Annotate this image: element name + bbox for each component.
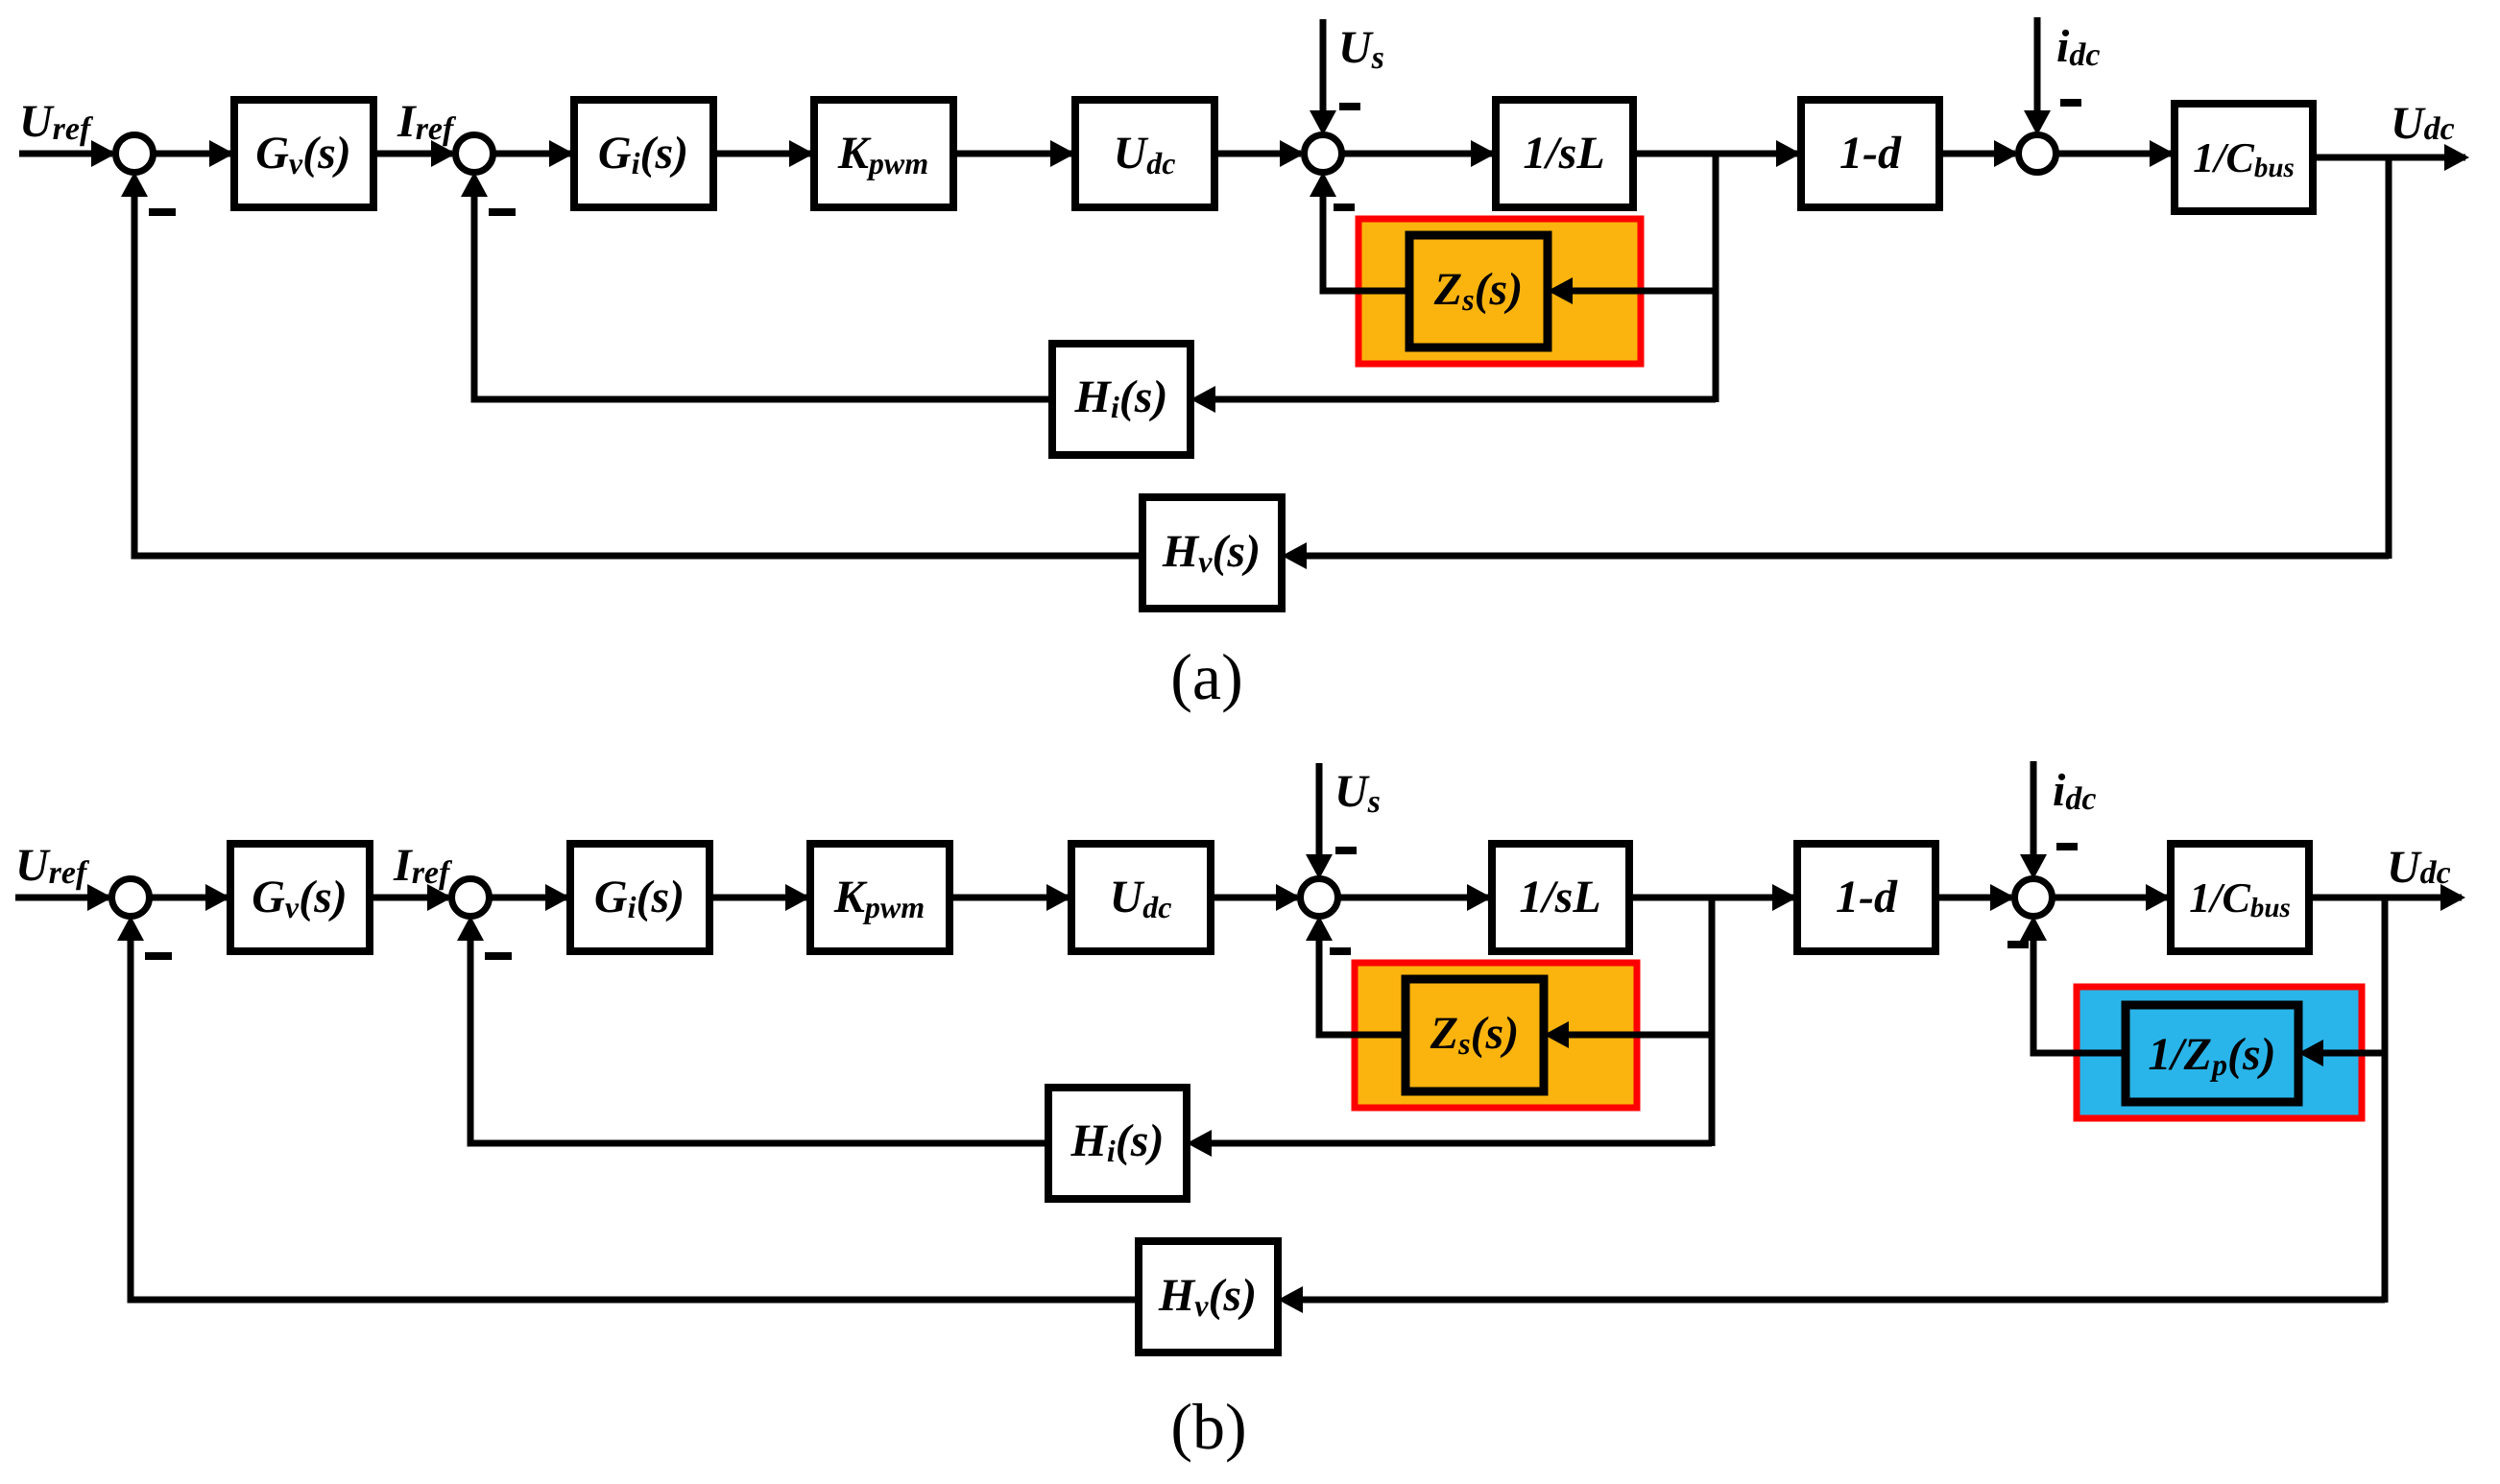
svg-text:Hv(s): Hv(s)	[1158, 1270, 1257, 1323]
svg-text:(a): (a)	[1170, 640, 1242, 713]
wire Udc -> S3 (b)	[1211, 895, 1297, 901]
highlight panel Zs(s) (b)	[1355, 963, 1637, 1108]
block Hv(s) (b)	[1139, 1241, 1278, 1352]
wire Hv(s) output -> S1 (b)	[131, 935, 1139, 1300]
minus sign at S1 (a)	[149, 208, 176, 216]
svg-text:Zs(s): Zs(s)	[1430, 1008, 1519, 1061]
svg-text:(b): (b)	[1170, 1390, 1246, 1463]
wire S1 -> Gv(s) (a)	[153, 151, 230, 157]
wire Gv(s) -> S2 (b)	[370, 895, 448, 901]
summing junction S3 (b)	[1301, 879, 1338, 917]
block Hv(s) (a)	[1142, 497, 1282, 609]
svg-text:1-d: 1-d	[1839, 128, 1902, 179]
svg-text:Hi(s): Hi(s)	[1074, 371, 1168, 424]
minus sign at S3 top (Us) (b)	[1335, 847, 1357, 854]
block Zs(s) (a)	[1409, 235, 1548, 347]
minus sign at S1 (b)	[145, 952, 172, 960]
wire Zs(s) output -> S3 (b)	[1319, 935, 1406, 1035]
wire Hi(s) output -> S2 (a)	[474, 191, 1052, 399]
wire output junction down (a)	[2386, 155, 2392, 559]
wire Hv(s) output -> S1 (a)	[134, 191, 1142, 556]
highlight panel 1/Zp(s) (b)	[2077, 987, 2362, 1118]
wire 1/Cbus -> Udc output (a)	[2313, 155, 2465, 161]
svg-text:Gv(s): Gv(s)	[255, 128, 351, 180]
wire S2 -> Gi(s) (a)	[493, 151, 570, 157]
wire S4 -> 1/Cbus (b)	[2052, 895, 2167, 901]
wire idc disturbance drop into S4 (a)	[2034, 17, 2041, 116]
wire S4 -> 1/Cbus (a)	[2055, 151, 2171, 157]
wire 1-d -> S4 (a)	[1939, 151, 2015, 157]
wire 1-d -> S4 (b)	[1935, 895, 2011, 901]
wire -> Hv(s) input (a)	[1303, 553, 2389, 560]
wire Us disturbance drop into S3 (b)	[1316, 763, 1323, 860]
wire 1/sL -> 1-d with junction (a)	[1633, 151, 1797, 157]
minus sign at S2 (a)	[489, 208, 516, 216]
summing junction S2 (b)	[452, 879, 490, 917]
block 1/Cbus (a)	[2175, 104, 2313, 211]
block Kpwm (b)	[810, 844, 950, 951]
svg-text:Gv(s): Gv(s)	[252, 872, 348, 924]
wire branch -> Zs(s) input (b)	[1565, 1032, 1712, 1039]
minus sign at S4 top (idc) (a)	[2060, 99, 2081, 107]
block 1/Cbus (b)	[2171, 844, 2309, 951]
svg-text:Gi(s): Gi(s)	[594, 872, 685, 924]
minus sign at S3 top (Us) (a)	[1339, 103, 1360, 110]
wire Gi(s) -> Kpwm (b)	[709, 895, 806, 901]
highlight panel Zs(s) (a)	[1358, 219, 1641, 364]
minus sign at S3 bottom (Zs) (a)	[1334, 203, 1355, 211]
block 1/sL (b)	[1492, 844, 1629, 951]
wire 1/sL -> 1-d with junction (b)	[1629, 895, 1793, 901]
block Gv(s) (b)	[230, 844, 370, 951]
wire Uref input -> S1 (b)	[15, 895, 108, 901]
wire Zs(s) output -> S3 (a)	[1323, 191, 1409, 291]
block 1-d (a)	[1801, 100, 1939, 207]
wire S3 -> 1/sL (b)	[1337, 895, 1488, 901]
wire Kpwm -> Udc (a)	[953, 151, 1071, 157]
minus sign at S4 top (idc) (b)	[2056, 843, 2078, 850]
block Hi(s) (b)	[1048, 1088, 1187, 1199]
minus sign at S3 bottom (Zs) (b)	[1330, 947, 1351, 955]
wire Udc -> S3 (a)	[1214, 151, 1301, 157]
wire Gi(s) -> Kpwm (a)	[713, 151, 810, 157]
wire 1/Zp(s) output -> S4 (b)	[2033, 935, 2126, 1053]
wire S3 -> 1/sL (a)	[1341, 151, 1492, 157]
wire junction after 1/sL down (a)	[1713, 151, 1719, 402]
block Gv(s) (a)	[234, 100, 373, 207]
wire -> Hi(s) input (b)	[1208, 1140, 1712, 1147]
block 1/Zp(s) (b)	[2126, 1005, 2298, 1102]
block Udc (a)	[1075, 100, 1214, 207]
svg-text:1/sL: 1/sL	[1523, 128, 1604, 179]
wire junction after 1/sL down (b)	[1709, 895, 1716, 1146]
wire S2 -> Gi(s) (b)	[489, 895, 566, 901]
wire idc disturbance drop into S4 (b)	[2031, 761, 2037, 860]
summing junction S1 (b)	[112, 879, 150, 917]
wire Kpwm -> Udc (b)	[950, 895, 1068, 901]
summing junction S1 (a)	[116, 135, 154, 173]
block Kpwm (a)	[814, 100, 953, 207]
minus sign at S2 (b)	[485, 952, 512, 960]
minus sign at S4 bottom (1/Zp) (b)	[2007, 941, 2029, 948]
block Udc (b)	[1071, 844, 1211, 951]
svg-text:1/sL: 1/sL	[1519, 872, 1600, 922]
wire Hi(s) output -> S2 (b)	[470, 935, 1048, 1143]
wire -> Hi(s) input (a)	[1212, 396, 1716, 403]
wire branch -> 1/Zp(s) input (b)	[2320, 1050, 2385, 1057]
block Gi(s) (a)	[574, 100, 713, 207]
block Gi(s) (b)	[570, 844, 709, 951]
summing junction S4 (b)	[2015, 879, 2053, 917]
svg-text:Hi(s): Hi(s)	[1070, 1115, 1165, 1168]
summing junction S3 (a)	[1305, 135, 1342, 173]
summing junction S2 (a)	[456, 135, 493, 173]
block 1/sL (a)	[1496, 100, 1633, 207]
wire branch -> Zs(s) input (a)	[1569, 288, 1716, 295]
wire -> Hv(s) input (b)	[1299, 1297, 2385, 1304]
wire S1 -> Gv(s) (b)	[149, 895, 227, 901]
wire Us disturbance drop into S3 (a)	[1320, 19, 1327, 116]
block Zs(s) (b)	[1406, 979, 1544, 1091]
block 1-d (b)	[1797, 844, 1935, 951]
wire Uref input -> S1 (a)	[19, 151, 112, 157]
wire Gv(s) -> S2 (a)	[373, 151, 452, 157]
svg-text:Hv(s): Hv(s)	[1162, 526, 1261, 579]
block Hi(s) (a)	[1052, 344, 1190, 455]
summing junction S4 (a)	[2019, 135, 2056, 173]
svg-text:Gi(s): Gi(s)	[598, 128, 688, 180]
wire output junction down (b)	[2382, 895, 2389, 1303]
svg-text:Zs(s): Zs(s)	[1433, 264, 1523, 317]
wire 1/Cbus -> Udc output (b)	[2309, 895, 2462, 901]
svg-text:1-d: 1-d	[1836, 872, 1898, 922]
